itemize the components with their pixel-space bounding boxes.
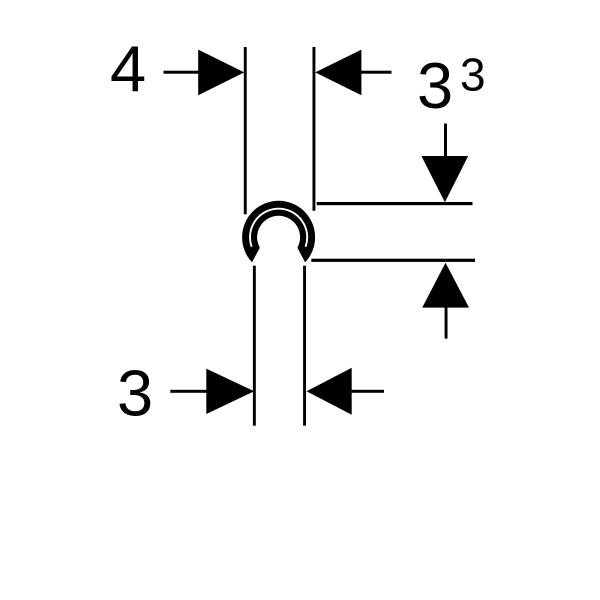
pipe clip C-ring band: [242, 201, 315, 263]
upper horizontal reference line: [317, 202, 473, 205]
svg-text:3: 3: [460, 49, 486, 101]
dimension 3 right arrowhead: [307, 368, 352, 415]
up arrowhead: [422, 263, 469, 308]
extension line right (vertical): [313, 47, 316, 211]
svg-text:4: 4: [110, 32, 146, 105]
dimension 4 right arrowhead: [315, 50, 361, 96]
dimension 3-sup vertical tail wire: [444, 124, 447, 160]
pipe wall right line: [303, 266, 306, 426]
up arrow vertical tail wire: [445, 303, 448, 339]
dimension 3 left arrowhead: [206, 369, 254, 414]
dimension 3 left tail wire: [170, 390, 208, 393]
dimension 3-sup down arrowhead: [421, 156, 468, 202]
dimension 3 right tail wire: [352, 390, 385, 393]
dimension 4 left tail wire: [164, 71, 207, 74]
svg-text:3: 3: [117, 357, 153, 430]
dimension 4 left arrowhead: [198, 50, 244, 96]
dimension 4 right tail wire: [355, 71, 392, 74]
svg-text:3: 3: [417, 49, 453, 122]
lower horizontal reference line: [311, 259, 475, 262]
pipe wall left line: [253, 266, 256, 426]
extension line left (vertical): [244, 47, 247, 214]
pipe clip C-ring white wall slit: [250, 209, 307, 247]
